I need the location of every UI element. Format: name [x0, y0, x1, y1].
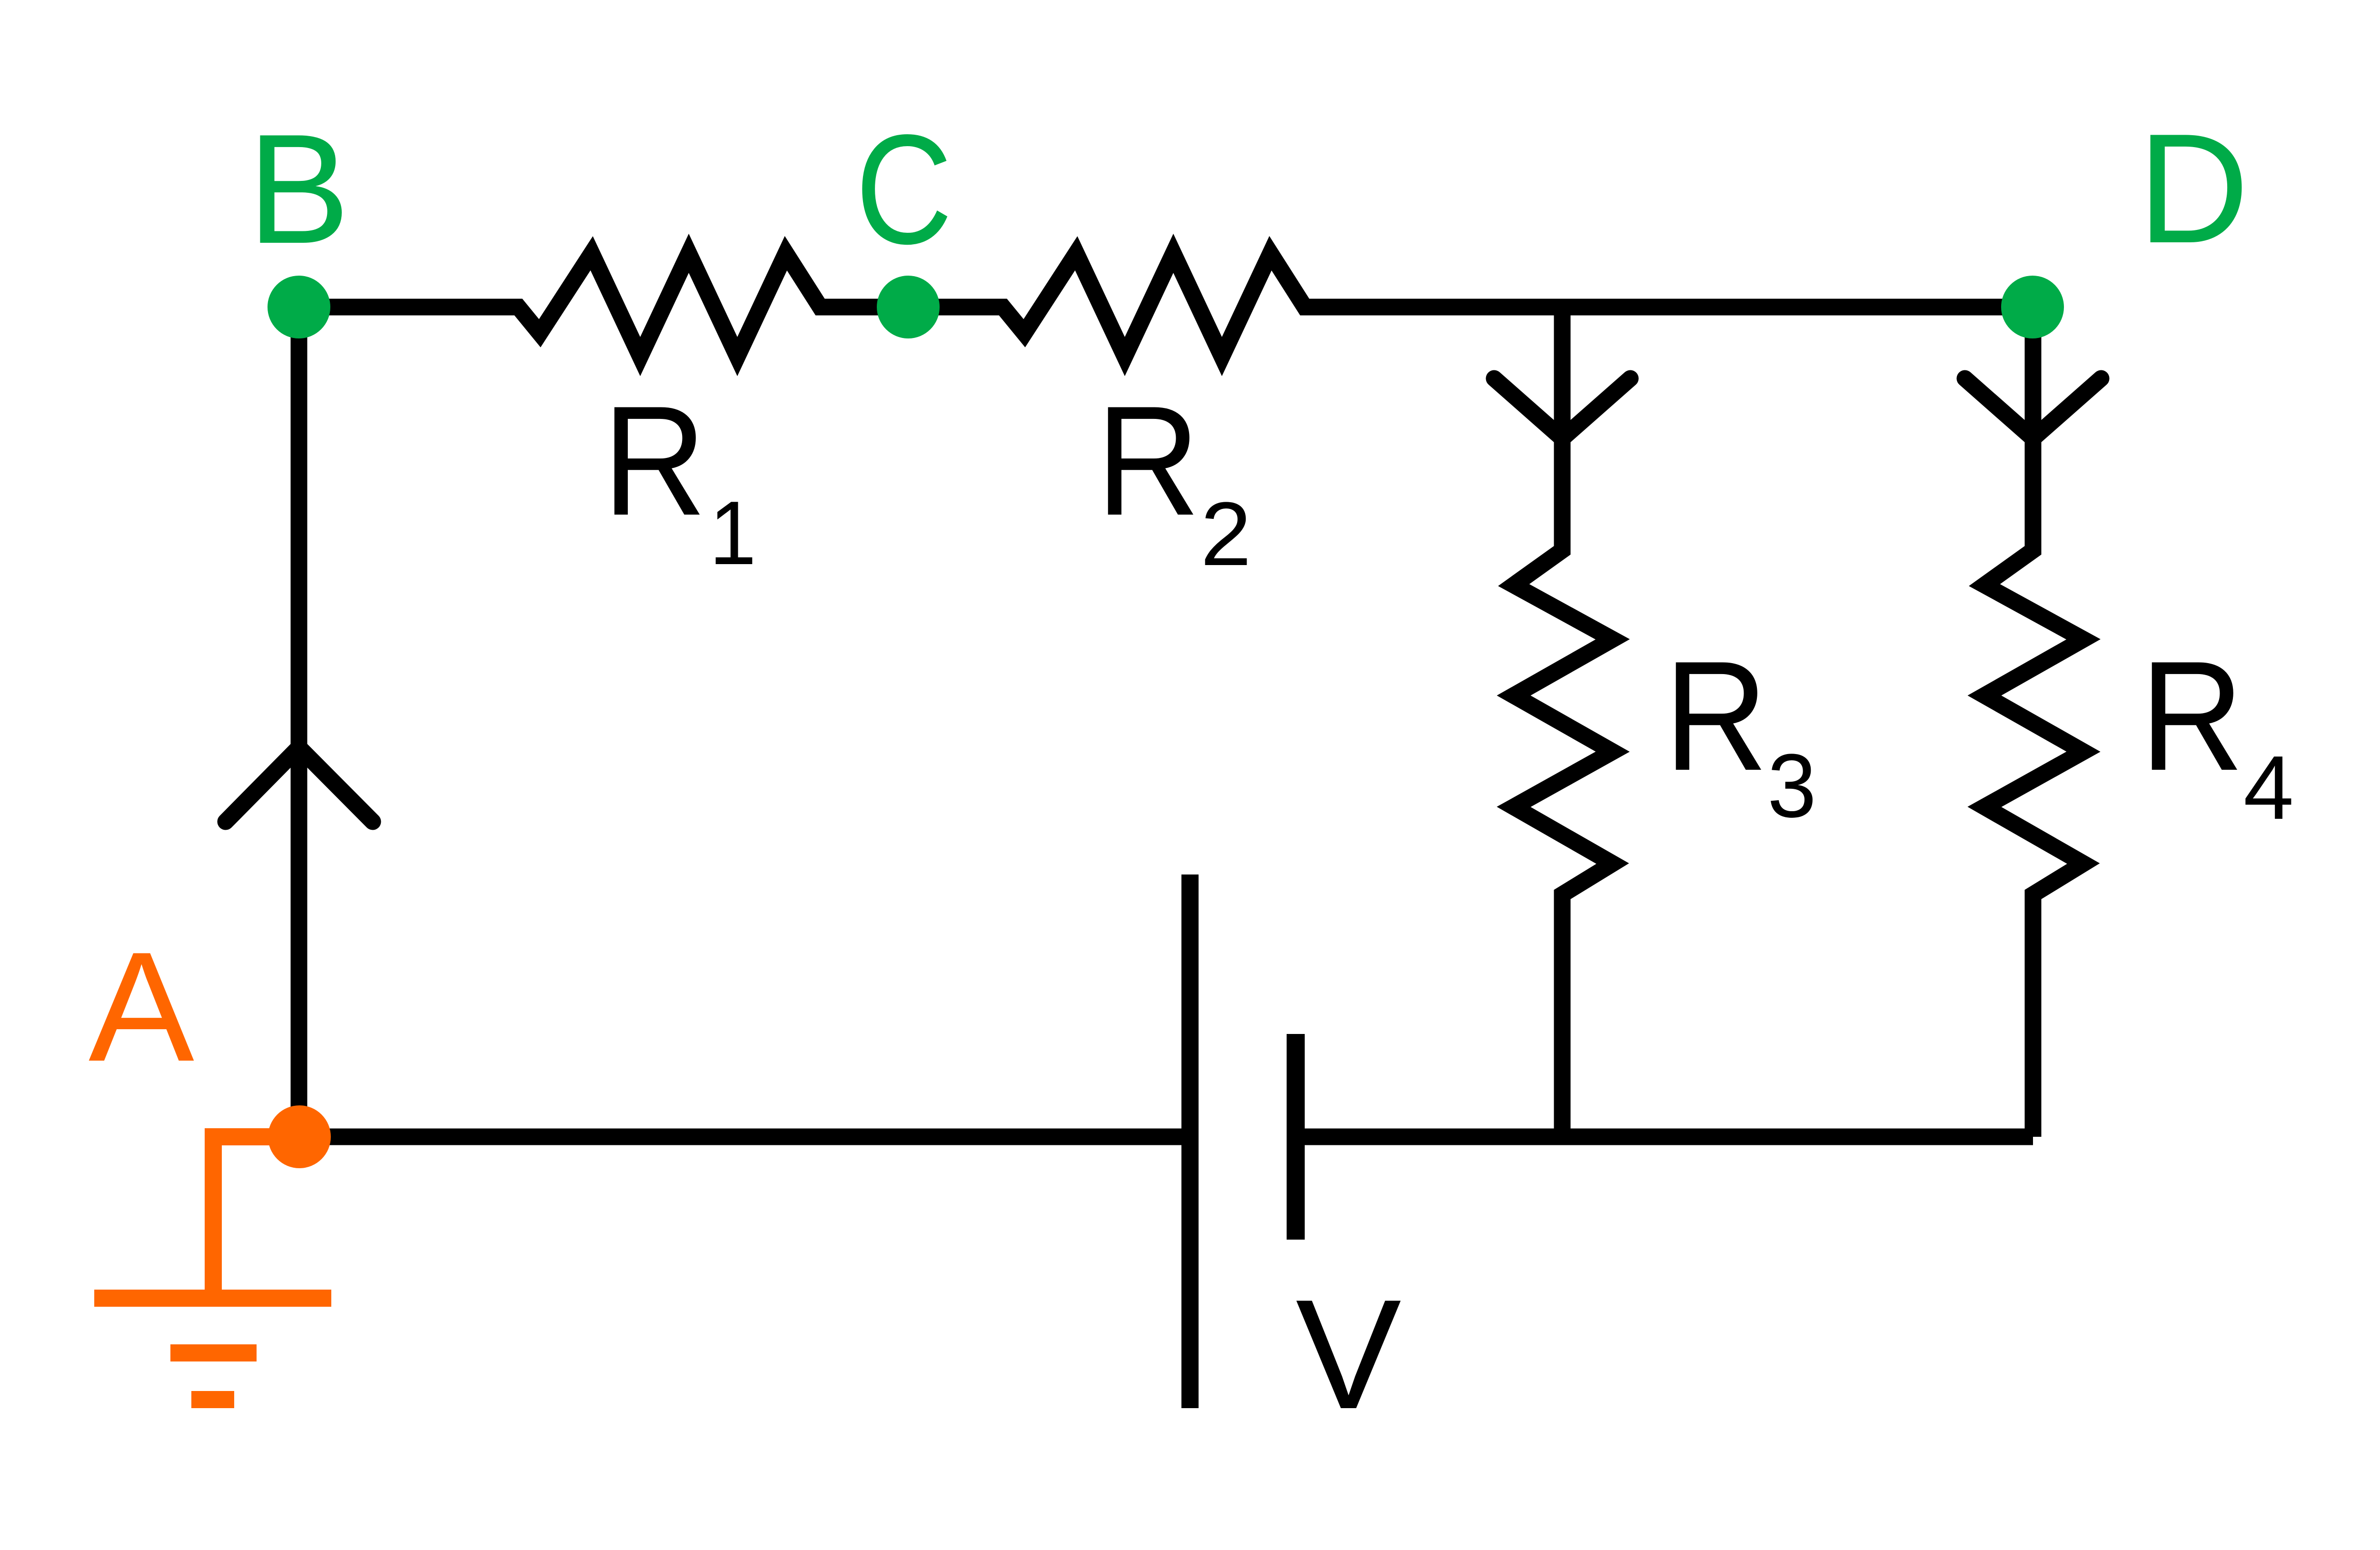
svg-text:R: R — [1664, 628, 1768, 803]
svg-text:R: R — [1096, 373, 1200, 548]
svg-text:D: D — [2138, 101, 2249, 276]
svg-text:2: 2 — [1200, 484, 1251, 585]
svg-text:B: B — [248, 101, 350, 276]
svg-text:V: V — [1296, 1267, 1402, 1441]
svg-text:3: 3 — [1767, 735, 1816, 836]
svg-text:C: C — [855, 102, 952, 277]
svg-text:4: 4 — [2243, 737, 2294, 838]
svg-text:R: R — [2140, 628, 2244, 803]
svg-text:A: A — [89, 919, 195, 1094]
svg-text:R: R — [603, 373, 706, 548]
svg-text:1: 1 — [709, 483, 756, 584]
